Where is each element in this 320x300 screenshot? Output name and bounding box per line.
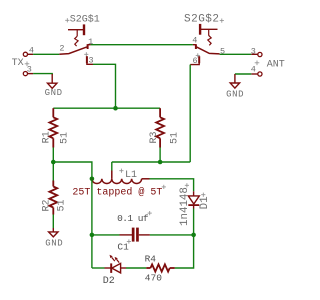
svg-text:S2G$2: S2G$2 bbox=[184, 14, 220, 26]
resistor R1 bbox=[49, 108, 57, 147]
ground GND (ANT) bbox=[230, 74, 239, 88]
svg-text:S2G$1: S2G$1 bbox=[70, 14, 100, 26]
wire LED row left bbox=[92, 267, 105, 269]
inductor L1 coil bbox=[92, 171, 150, 184]
switch S2G$2 actuator bar bbox=[200, 24, 217, 35]
ground GND (R2) bbox=[49, 228, 58, 237]
TX pin 4 label bbox=[29, 46, 34, 56]
C1 value origin cross bbox=[148, 211, 152, 215]
resistor R2 bbox=[49, 181, 57, 215]
svg-text:GND: GND bbox=[45, 238, 63, 248]
wire left rail (coil left down to LED row) bbox=[91, 179, 93, 268]
wire S2G$1 pin1 to S2G$2 pin4 bbox=[91, 44, 193, 46]
svg-text:C1: C1 bbox=[117, 242, 129, 253]
R2 name label bbox=[42, 199, 53, 211]
wire ANT4 to GND bbox=[235, 73, 251, 75]
svg-text:GND: GND bbox=[226, 89, 244, 99]
D1 value label 1n4148 bbox=[179, 187, 191, 226]
wire mid rail left segment to coil bbox=[53, 162, 92, 179]
S2G$1 pin 1 label bbox=[88, 37, 93, 47]
resistor R3 bbox=[156, 108, 164, 147]
switch S2G$1 label bbox=[70, 14, 100, 26]
svg-text:25T tapped @ 5T: 25T tapped @ 5T bbox=[72, 187, 162, 199]
node junction D1 / C1 row bbox=[191, 233, 196, 238]
diode D1 bbox=[188, 191, 199, 208]
wire TX3 to GND bbox=[33, 74, 52, 75]
wire D2 to R4 bbox=[126, 267, 146, 269]
L1 value origin cross bbox=[162, 185, 166, 189]
svg-text:4: 4 bbox=[251, 65, 256, 75]
ground GND (TX) text bbox=[45, 88, 63, 98]
wire R2 bottom to GND bbox=[52, 215, 54, 229]
wire R1 bottom to mid rail bbox=[52, 148, 54, 163]
node junction R1 bottom / R2 / mid rail bbox=[51, 160, 56, 165]
svg-text:R3: R3 bbox=[149, 131, 160, 143]
S2G$1 pin 3 contact bbox=[87, 56, 93, 64]
svg-text:R1: R1 bbox=[42, 131, 53, 143]
R1 value label 51 bbox=[59, 132, 70, 144]
connector TX label bbox=[12, 58, 24, 69]
svg-text:0.1 uf: 0.1 uf bbox=[117, 213, 149, 224]
switch S2G$2 linkage bbox=[208, 29, 211, 45]
D1 origin cross bbox=[201, 193, 205, 197]
svg-text:5: 5 bbox=[220, 47, 225, 57]
svg-text:ANT: ANT bbox=[267, 59, 285, 70]
svg-text:R2: R2 bbox=[42, 199, 53, 211]
ANT pin 4 pad circle bbox=[258, 72, 262, 76]
ground GND (ANT) text bbox=[226, 89, 244, 99]
top rail wire R1-R3 bbox=[53, 107, 160, 109]
svg-text:51: 51 bbox=[56, 199, 67, 211]
ANT pin 4 stub bbox=[251, 73, 257, 75]
svg-text:R4: R4 bbox=[145, 254, 157, 265]
C1 name label bbox=[117, 242, 129, 253]
svg-text:4: 4 bbox=[192, 35, 197, 45]
connector ANT label bbox=[267, 59, 285, 70]
wire S2G$1 pin3 down to top rail bbox=[93, 64, 116, 108]
LED D2 bbox=[105, 263, 127, 273]
node junction coil left bbox=[90, 177, 95, 182]
wire mid rail right segment (tap to pin6 riser) bbox=[112, 161, 190, 163]
ANT pin 3 label bbox=[251, 47, 256, 57]
node junction top rail / pin3 wire bbox=[113, 106, 118, 111]
TX pin 3 label bbox=[27, 64, 32, 74]
R3 value label 51 bbox=[169, 132, 180, 144]
L1 name label bbox=[125, 170, 137, 181]
TX pin 4 pad circle bbox=[23, 52, 27, 56]
wire D1 to C1 row junction bbox=[193, 209, 195, 235]
svg-text:GND: GND bbox=[45, 88, 63, 98]
wire L1 tap riser bbox=[111, 162, 113, 171]
D2 name label bbox=[103, 276, 115, 287]
wire TX4 to S2G$1 pin2 bbox=[33, 53, 59, 55]
wire R4 to D1 rail bbox=[175, 235, 194, 268]
S2G$2 origin cross (pivot) bbox=[196, 53, 200, 57]
1n4148 origin cross bbox=[185, 183, 189, 187]
S2G$2 pin 4 label bbox=[192, 35, 197, 45]
S2G$2 pin 4 contact bbox=[193, 44, 196, 49]
D1 name label bbox=[199, 196, 211, 209]
svg-text:1n4148: 1n4148 bbox=[179, 187, 191, 226]
C1 value label 0.1 uf bbox=[117, 213, 149, 224]
R2 value label 51 bbox=[56, 199, 67, 211]
switch S2G$1 actuator bar bbox=[68, 24, 84, 35]
capacitor C1 bbox=[120, 228, 150, 242]
TX pin 4 stub bbox=[28, 53, 33, 55]
switch S2G$2 arm (pin 4 to pin 5) bbox=[197, 47, 220, 54]
svg-text:L1: L1 bbox=[125, 170, 137, 181]
L1 origin cross bbox=[119, 169, 123, 173]
S2G$2 pin 5 label bbox=[220, 47, 225, 57]
S2G$1 pin 3 label bbox=[89, 56, 94, 66]
svg-text:D2: D2 bbox=[103, 276, 115, 287]
TX pin 3 pad circle bbox=[23, 72, 27, 76]
wire C1 row right bbox=[150, 234, 194, 236]
wire L1 right to D1 bbox=[150, 179, 194, 192]
R4 name label bbox=[145, 254, 157, 265]
svg-text:2: 2 bbox=[59, 44, 64, 54]
wire S2G$2 pin6 down to mid rail bbox=[189, 65, 191, 162]
S2G$1 origin cross (pivot) bbox=[84, 52, 88, 56]
svg-text:51: 51 bbox=[169, 132, 180, 144]
C1 origin cross bbox=[127, 239, 131, 243]
S2G$1 origin cross bbox=[65, 18, 69, 22]
node junction R3 bottom / mid rail bbox=[158, 160, 163, 165]
ANT origin cross bbox=[255, 61, 260, 66]
S2G$1 pin 1 contact bbox=[88, 44, 91, 49]
switch S2G$2 label bbox=[184, 14, 220, 26]
S2G$1 pin 2 label bbox=[59, 44, 64, 54]
node junction left rail / C1 row bbox=[90, 233, 95, 238]
svg-text:51: 51 bbox=[59, 132, 70, 144]
S2G$2 pin 6 label bbox=[193, 56, 198, 66]
ANT pin 3 stub bbox=[251, 53, 257, 55]
resistor R4 bbox=[146, 264, 175, 271]
ANT pin 3 pad circle bbox=[258, 52, 262, 56]
ANT pin 4 label bbox=[251, 65, 256, 75]
R3 name label bbox=[149, 131, 160, 143]
svg-text:D1: D1 bbox=[199, 196, 211, 209]
wire mid rail to R2 bbox=[52, 162, 54, 181]
svg-text:3: 3 bbox=[251, 47, 256, 57]
L1 value label 25T tapped @ 5T bbox=[72, 187, 162, 199]
switch S2G$1 arm (pin 2 to pin 1) bbox=[59, 47, 87, 54]
TX origin cross bbox=[25, 62, 30, 67]
R1 name label bbox=[42, 131, 53, 143]
S2G$2 pin 6 contact bbox=[190, 56, 199, 64]
S2G$2 origin cross bbox=[220, 19, 224, 23]
TX pin 3 stub bbox=[28, 73, 33, 75]
svg-text:470: 470 bbox=[145, 273, 162, 284]
wire C1 row left bbox=[92, 234, 120, 236]
ground GND (TX) bbox=[48, 74, 57, 88]
D2 emission arrows bbox=[110, 255, 120, 263]
wire S2G$2 pin5 to ANT pin3 bbox=[220, 53, 252, 55]
R4 value label 470 bbox=[145, 273, 162, 284]
ground GND (R2) text bbox=[45, 238, 63, 248]
wire R3 bottom to mid rail bbox=[159, 148, 161, 163]
switch S2G$1 linkage bbox=[75, 30, 78, 46]
svg-text:TX: TX bbox=[12, 58, 24, 69]
